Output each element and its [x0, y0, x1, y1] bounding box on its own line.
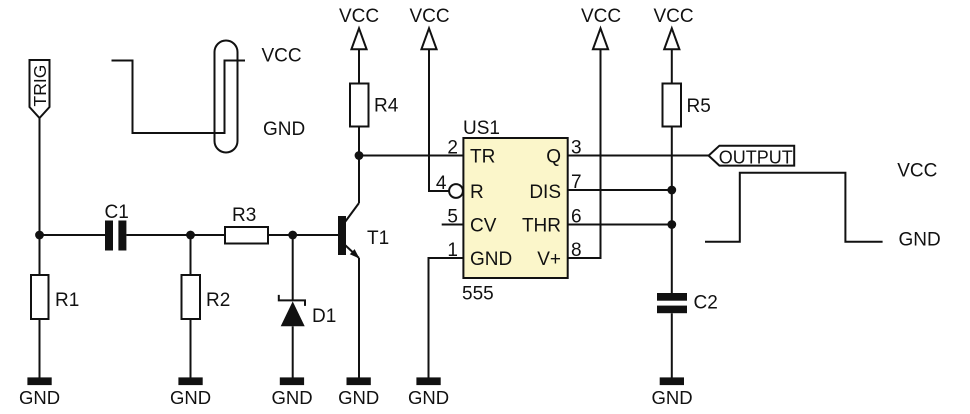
node junction (R2 tap)	[186, 231, 195, 240]
svg-text:2: 2	[447, 138, 458, 159]
zener diode D1	[279, 235, 336, 378]
ground (R2)	[170, 377, 211, 408]
svg-text:VCC: VCC	[339, 6, 379, 27]
capacitor C1	[105, 202, 129, 251]
power VCC (R4)	[339, 6, 379, 49]
svg-text:GND: GND	[651, 387, 692, 408]
resistor R2	[182, 235, 231, 378]
svg-text:GND: GND	[271, 387, 312, 408]
pin 6 wire (THR)	[568, 224, 672, 226]
reset pin bubble	[449, 184, 463, 198]
ground (pin 1)	[408, 377, 449, 408]
svg-text:GND: GND	[338, 387, 379, 408]
node junction (D1 tap)	[288, 231, 297, 240]
op-amp U1 body: IC US1 555	[462, 118, 568, 305]
svg-text:R2: R2	[206, 290, 230, 311]
wire node A to C1	[40, 234, 106, 236]
svg-text:555: 555	[462, 284, 494, 305]
svg-text:CV: CV	[470, 216, 497, 237]
node A junction	[35, 231, 44, 240]
svg-text:VCC: VCC	[897, 161, 937, 182]
svg-text:T1: T1	[367, 228, 389, 249]
pin 1 wire (GND)	[429, 258, 464, 378]
svg-text:GND: GND	[470, 249, 512, 270]
svg-text:4: 4	[436, 173, 447, 194]
wire C1 to R3	[126, 234, 225, 236]
wire TR to IC pin 2	[359, 155, 463, 157]
svg-text:D1: D1	[312, 306, 336, 327]
ground (T1)	[338, 377, 379, 408]
svg-text:GND: GND	[19, 387, 60, 408]
svg-text:Q: Q	[546, 147, 561, 168]
node junction (collector / R4 / TR)	[355, 151, 364, 160]
svg-text:VCC: VCC	[262, 46, 302, 67]
resistor R1	[31, 235, 79, 378]
svg-text:V+: V+	[537, 249, 561, 270]
resistor R3	[225, 205, 268, 244]
ground (C2)	[651, 377, 692, 408]
trigger edge highlight loop	[215, 41, 238, 153]
svg-text:C2: C2	[694, 293, 718, 314]
connector OUTPUT	[709, 146, 795, 168]
svg-text:VCC: VCC	[653, 6, 693, 27]
svg-text:DIS: DIS	[529, 182, 561, 203]
power VCC (V+)	[581, 6, 621, 49]
transistor T1	[338, 156, 389, 378]
power VCC (reset)	[409, 6, 449, 49]
wire VCC to R pin	[429, 49, 449, 191]
resistor R4	[350, 49, 399, 155]
capacitor C2	[657, 293, 718, 314]
svg-text:TRIG: TRIG	[30, 65, 50, 107]
trigger input waveform	[112, 61, 246, 134]
wire TRIG to node A	[39, 118, 41, 235]
wire R3 to T1 base	[268, 234, 338, 236]
connector TRIG	[30, 60, 51, 118]
pin 7 wire (DIS)	[568, 189, 672, 191]
svg-text:R4: R4	[374, 96, 399, 117]
svg-text:OUTPUT: OUTPUT	[719, 148, 793, 168]
svg-text:VCC: VCC	[409, 6, 449, 27]
svg-text:GND: GND	[170, 387, 211, 408]
svg-text:US1: US1	[463, 118, 500, 139]
svg-text:R: R	[470, 182, 484, 203]
svg-text:VCC: VCC	[581, 6, 621, 27]
wire C2 to ground	[671, 313, 673, 377]
ground (R1)	[19, 377, 60, 408]
pin 5 stub (CV)	[442, 224, 464, 226]
svg-text:C1: C1	[105, 202, 129, 223]
junction dot (THR)	[667, 220, 676, 229]
svg-text:GND: GND	[263, 119, 305, 140]
svg-text:TR: TR	[470, 147, 495, 168]
ground (D1)	[271, 377, 312, 408]
output waveform	[705, 173, 883, 242]
svg-text:R1: R1	[55, 290, 79, 311]
power VCC (R5)	[653, 6, 693, 49]
svg-text:R5: R5	[687, 96, 711, 117]
svg-text:GND: GND	[408, 387, 449, 408]
junction dot (DIS)	[667, 186, 676, 195]
svg-text:THR: THR	[522, 216, 561, 237]
svg-text:GND: GND	[899, 230, 941, 251]
svg-text:R3: R3	[232, 205, 256, 226]
pin 3 wire (Q) to OUTPUT	[568, 155, 709, 157]
pin 8 wire (V+)	[568, 49, 601, 258]
resistor R5	[663, 49, 711, 293]
